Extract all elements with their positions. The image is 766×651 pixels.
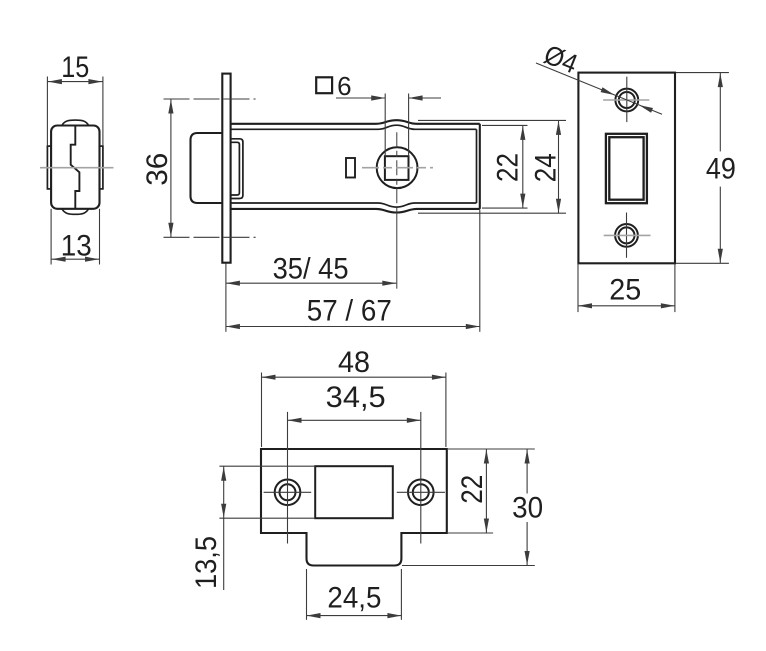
dimension 22 (case height) xyxy=(482,125,528,208)
dimension 48 (strike plate width) xyxy=(262,346,446,447)
latch case end view parting line xyxy=(71,126,80,209)
latch case end view centerline xyxy=(40,167,114,169)
case bottom inner line xyxy=(231,203,477,207)
svg-text:22: 22 xyxy=(456,475,489,504)
latch case end view body xyxy=(51,126,99,209)
strike right screw hole outer xyxy=(408,480,434,506)
bolt tail guide outer xyxy=(231,139,243,199)
svg-text:15: 15 xyxy=(61,51,89,84)
dimension 57/67 (overall case length) xyxy=(226,210,480,332)
dimension 35/45 (backset) xyxy=(226,253,396,332)
faceplate bottom hole vertical centerline xyxy=(626,213,628,258)
dimension 13 (case body width) xyxy=(51,209,99,265)
svg-text:22: 22 xyxy=(492,153,525,182)
dimension 24 (height over hub bulge) xyxy=(418,120,566,213)
strike right hole vertical centerline xyxy=(420,412,422,544)
svg-text:24,5: 24,5 xyxy=(327,582,381,615)
follower hub circle xyxy=(377,147,418,188)
svg-text:36: 36 xyxy=(141,153,174,186)
svg-text:34,5: 34,5 xyxy=(326,381,386,414)
strike plate outline xyxy=(261,449,447,566)
svg-text:35/ 45: 35/ 45 xyxy=(273,253,349,286)
faceplate bottom hole horizontal centerline xyxy=(604,234,651,236)
dimension 15 (case width over tabs) xyxy=(47,51,103,146)
latch case end view right tab xyxy=(100,146,103,189)
latch case end view left tab xyxy=(47,146,51,189)
latch case end view bottom boss arc xyxy=(62,209,89,214)
dimension 34,5 (screw hole centers) xyxy=(288,381,421,423)
svg-text:30: 30 xyxy=(512,491,543,524)
latch bolt xyxy=(191,133,223,203)
svg-text:48: 48 xyxy=(338,346,370,379)
spindle square hole xyxy=(385,156,409,180)
svg-text:6: 6 xyxy=(337,71,351,101)
dimension square 6 (spindle hole) xyxy=(316,71,441,157)
latch case end view top boss arc xyxy=(62,120,89,125)
dimension 24,5 (strike tab width) xyxy=(307,569,402,620)
faceplate bottom screw hole inner xyxy=(619,227,635,243)
follower vertical centerline xyxy=(396,132,398,288)
strike latch hole xyxy=(315,466,393,518)
faceplate front view plate xyxy=(578,73,675,264)
svg-text:25: 25 xyxy=(609,274,641,307)
case right end inner xyxy=(476,129,478,203)
follower horizontal center mark xyxy=(362,167,433,169)
strike left screw hole inner xyxy=(280,484,296,500)
faceplate top screw hole outer xyxy=(615,89,638,112)
strike left hole horizontal centerline xyxy=(264,491,312,493)
case bottom outer line xyxy=(231,209,480,213)
faceplate top screw hole inner xyxy=(619,92,635,108)
case top outer line xyxy=(231,120,480,124)
dimension 22 (strike plate height) xyxy=(448,449,535,533)
strike left hole vertical centerline xyxy=(287,412,289,544)
bolt tail guide inner xyxy=(231,142,240,195)
faceplate side view xyxy=(222,74,230,263)
dimension diameter 4 (screw holes) leader xyxy=(536,39,662,114)
faceplate top hole horizontal centerline xyxy=(603,99,649,101)
faceplate latch opening inner xyxy=(609,137,643,200)
dimension 13,5 (strike latch hole height) xyxy=(190,466,315,590)
dimension 49 (faceplate height) xyxy=(676,73,736,264)
svg-text:13: 13 xyxy=(61,230,92,263)
faceplate bottom screw hole outer xyxy=(615,224,638,247)
dimension 25 (faceplate width) xyxy=(578,264,675,313)
case top inner line xyxy=(231,125,477,129)
dimension 36 (bolt height over faceplate) xyxy=(141,99,256,237)
strike right screw hole inner xyxy=(413,484,429,500)
dimension 30 (strike overall height) xyxy=(402,449,543,566)
stop slot xyxy=(346,158,355,178)
svg-text:24: 24 xyxy=(529,153,562,182)
svg-text:57 / 67: 57 / 67 xyxy=(307,294,392,327)
strike left screw hole outer xyxy=(275,480,301,506)
svg-text:13,5: 13,5 xyxy=(190,536,223,589)
faceplate latch opening outer xyxy=(606,134,647,203)
faceplate top hole vertical centerline xyxy=(626,77,628,122)
strike right hole horizontal centerline xyxy=(397,491,445,493)
case right end outer xyxy=(479,124,481,209)
svg-text:49: 49 xyxy=(706,153,736,186)
